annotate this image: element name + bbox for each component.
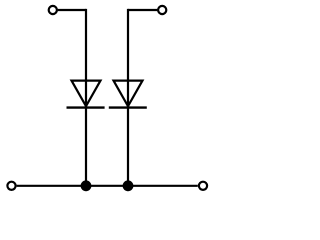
junction node branch 2 / bus: [123, 180, 134, 191]
terminal X1 top-left: [49, 6, 57, 14]
wire bottom bus: [17, 185, 198, 187]
wire branch 2 vertical: [127, 9, 129, 186]
terminal X2 top-right: [158, 6, 166, 14]
terminal X4 bottom-right: [199, 182, 207, 190]
terminal X3 bottom-left: [7, 182, 15, 190]
diode D2 cathode bar: [109, 106, 147, 108]
junction node branch 1 / bus: [81, 180, 92, 191]
diode D2 triangle: [114, 81, 143, 107]
diode D1 triangle: [72, 81, 101, 107]
wire top-right horizontal: [128, 9, 157, 11]
wire branch 1 vertical: [85, 9, 87, 186]
diode D1 cathode bar: [67, 106, 105, 108]
wire top-left horizontal: [58, 9, 86, 11]
